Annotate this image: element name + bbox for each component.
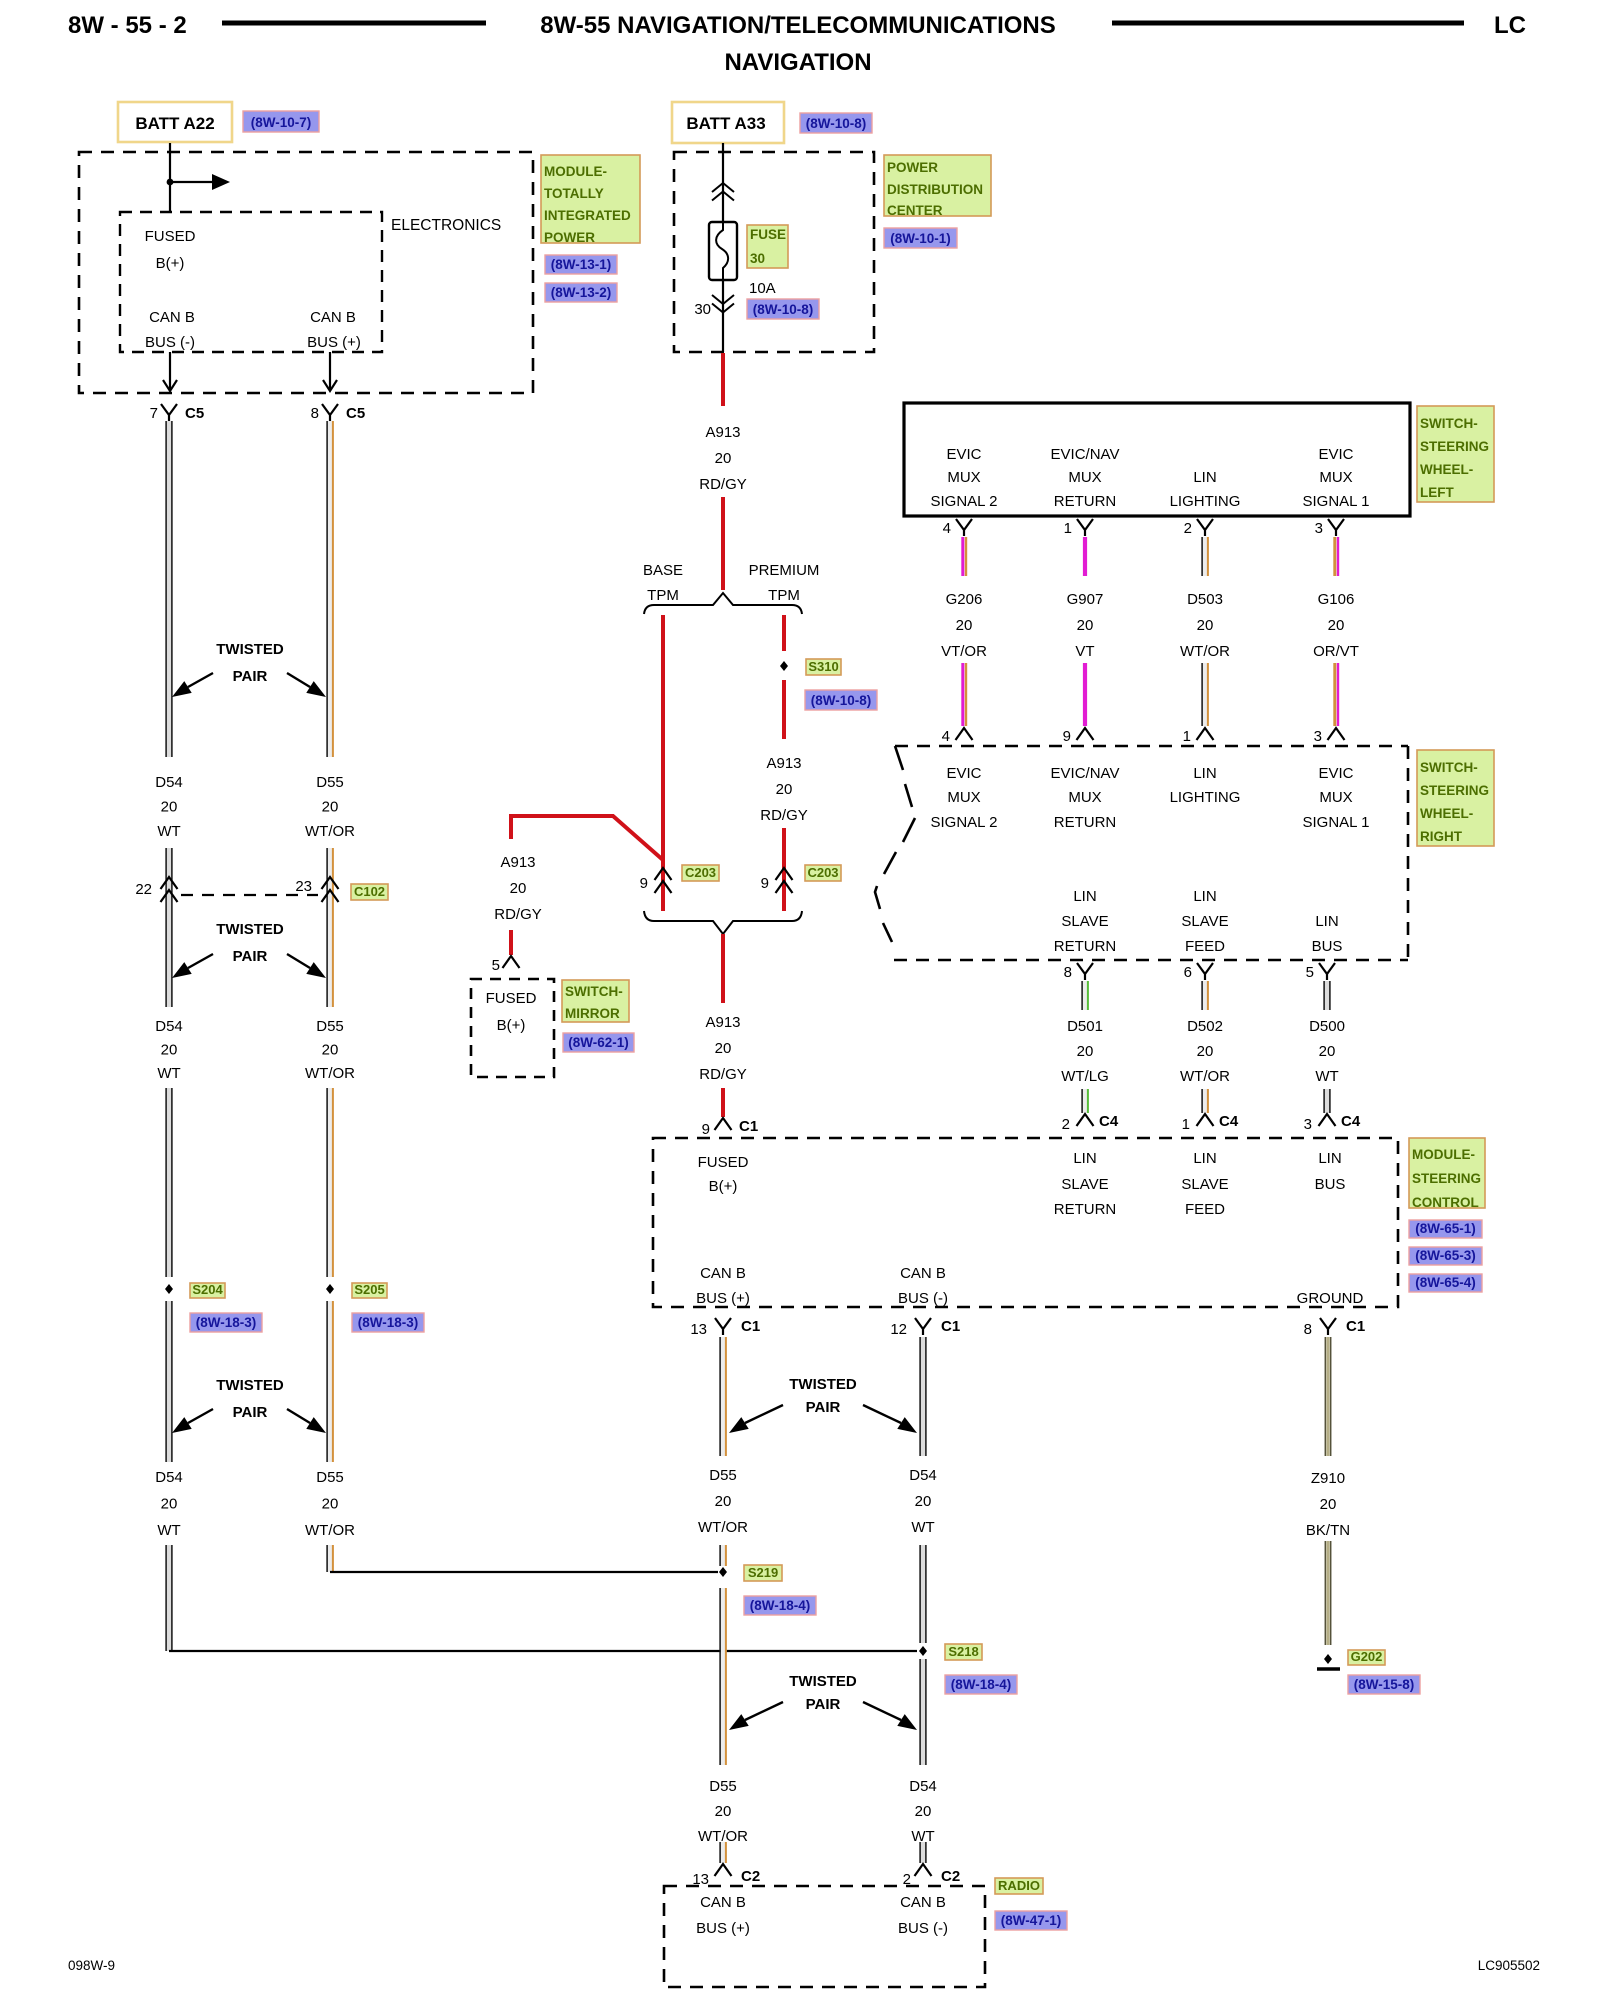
svg-text:3: 3 xyxy=(1314,728,1322,745)
svg-text:WT/OR: WT/OR xyxy=(698,1828,748,1845)
svg-text:C2: C2 xyxy=(741,1868,760,1885)
svg-text:FUSED: FUSED xyxy=(486,990,537,1007)
svg-text:20: 20 xyxy=(956,617,973,634)
connector C203 pin 9 base xyxy=(640,868,672,893)
splice S204 xyxy=(165,1282,225,1298)
reference (8W-10-1) xyxy=(884,228,957,248)
svg-text:FEED: FEED xyxy=(1185,1201,1225,1218)
svg-text:(8W-65-1): (8W-65-1) xyxy=(1415,1221,1476,1236)
svg-text:6: 6 xyxy=(1184,964,1192,981)
wire D55 20 WT/OR (centre) xyxy=(698,1337,748,1863)
svg-text:Z910: Z910 xyxy=(1311,1470,1345,1487)
svg-text:20: 20 xyxy=(322,1042,339,1059)
svg-text:RD/GY: RD/GY xyxy=(699,1066,747,1083)
wire D503 20 WT/OR xyxy=(1180,537,1230,726)
svg-text:8W-55 NAVIGATION/TELECOMMUNICA: 8W-55 NAVIGATION/TELECOMMUNICATIONS xyxy=(540,12,1056,39)
svg-text:D500: D500 xyxy=(1309,1018,1345,1035)
wire A913 BASE TPM branch xyxy=(661,615,665,911)
splice S310 xyxy=(780,659,841,675)
module SWITCH-MIRROR dashed box xyxy=(471,979,554,1077)
svg-text:098W-9: 098W-9 xyxy=(68,1958,115,1973)
twisted pair callout centre 1 xyxy=(729,1376,917,1433)
svg-text:B(+): B(+) xyxy=(709,1178,738,1195)
svg-text:MUX: MUX xyxy=(1068,469,1101,486)
reference (8W-18-4) xyxy=(744,1596,816,1615)
fuse label FUSE 30 xyxy=(747,225,788,268)
svg-text:CAN B: CAN B xyxy=(700,1894,746,1911)
svg-text:MUX: MUX xyxy=(1068,789,1101,806)
svg-text:20: 20 xyxy=(1328,617,1345,634)
branch wire to mirror switch xyxy=(494,816,663,955)
svg-text:PREMIUM: PREMIUM xyxy=(749,562,820,579)
reference (8W-18-3) xyxy=(352,1313,424,1332)
svg-text:C4: C4 xyxy=(1099,1113,1119,1130)
svg-text:4: 4 xyxy=(942,728,950,745)
svg-text:LIN: LIN xyxy=(1073,888,1096,905)
reference (8W-18-3) xyxy=(190,1313,262,1332)
svg-text:SWITCH-: SWITCH- xyxy=(1420,760,1478,775)
inner electronics dashed box xyxy=(120,212,382,352)
splice label S218 xyxy=(945,1644,982,1660)
connector C4 pin 2 xyxy=(1062,1113,1119,1133)
wire D500 20 WT xyxy=(1309,981,1345,1113)
reference (8W-65-4) xyxy=(1409,1274,1482,1292)
wire D55 20 WT/OR (left) xyxy=(305,421,355,1572)
svg-text:EVIC: EVIC xyxy=(946,446,981,463)
svg-text:G907: G907 xyxy=(1067,591,1104,608)
svg-text:D54: D54 xyxy=(155,1018,183,1035)
svg-text:S205: S205 xyxy=(354,1282,384,1297)
svg-text:BUS (+): BUS (+) xyxy=(696,1290,750,1307)
svg-text:22: 22 xyxy=(135,881,152,898)
svg-text:TWISTED: TWISTED xyxy=(216,921,284,938)
svg-text:1: 1 xyxy=(1182,1116,1190,1133)
svg-text:D503: D503 xyxy=(1187,591,1223,608)
wire G907 20 VT xyxy=(1067,537,1104,726)
svg-text:FUSED: FUSED xyxy=(145,228,196,245)
connector pin 2 steering wheel left xyxy=(1184,519,1213,537)
twisted pair callout left 1 xyxy=(172,641,326,697)
svg-text:BUS (-): BUS (-) xyxy=(898,1920,948,1937)
reference (8W-18-4) xyxy=(945,1675,1017,1694)
svg-text:20: 20 xyxy=(161,799,178,816)
svg-text:30: 30 xyxy=(694,301,711,318)
svg-text:B(+): B(+) xyxy=(156,255,185,272)
svg-text:3: 3 xyxy=(1315,520,1323,537)
reference (8W-13-2) xyxy=(545,283,617,302)
svg-text:RETURN: RETURN xyxy=(1054,938,1117,955)
svg-text:(8W-10-8): (8W-10-8) xyxy=(753,302,814,317)
label ELECTRONICS xyxy=(391,217,501,234)
svg-text:TWISTED: TWISTED xyxy=(216,641,284,658)
connector pin 3 steering wheel left xyxy=(1315,519,1344,537)
svg-text:BUS: BUS xyxy=(1312,938,1343,955)
wire CAN B BUS (+) exit arrow xyxy=(323,352,337,391)
svg-text:D54: D54 xyxy=(909,1778,937,1795)
svg-text:G202: G202 xyxy=(1351,1649,1383,1664)
wire fuse output xyxy=(722,280,724,352)
svg-text:C5: C5 xyxy=(185,405,204,422)
wire D501 20 WT/LG xyxy=(1061,981,1109,1113)
module PDC dashed box xyxy=(674,152,874,352)
svg-text:S204: S204 xyxy=(192,1282,223,1297)
svg-text:PAIR: PAIR xyxy=(806,1399,841,1416)
connector pin 9 steering wheel right xyxy=(1063,728,1094,745)
svg-text:ELECTRONICS: ELECTRONICS xyxy=(391,217,501,234)
connector C1 pin 12 xyxy=(890,1318,960,1338)
wire G106 20 OR/VT xyxy=(1313,537,1359,726)
module label RADIO xyxy=(995,1878,1043,1894)
svg-text:PAIR: PAIR xyxy=(233,668,268,685)
svg-text:RD/GY: RD/GY xyxy=(760,807,808,824)
svg-text:20: 20 xyxy=(322,1496,339,1513)
svg-text:20: 20 xyxy=(1077,1043,1094,1060)
connector C1 pin 8 xyxy=(1304,1318,1366,1338)
svg-text:(8W-18-3): (8W-18-3) xyxy=(358,1315,419,1330)
svg-text:D54: D54 xyxy=(155,1469,183,1486)
svg-text:MODULE-: MODULE- xyxy=(1412,1147,1475,1162)
connector pin 4 steering wheel left xyxy=(943,519,972,537)
connector C4 pin 3 xyxy=(1304,1113,1361,1133)
connector C2 pin 2 xyxy=(903,1864,961,1888)
svg-text:RD/GY: RD/GY xyxy=(699,476,747,493)
svg-text:SIGNAL 2: SIGNAL 2 xyxy=(931,493,998,510)
reference (8W-10-8) xyxy=(747,299,819,319)
svg-text:C4: C4 xyxy=(1341,1113,1361,1130)
svg-text:D55: D55 xyxy=(709,1467,737,1484)
svg-text:20: 20 xyxy=(715,1493,732,1510)
svg-text:CAN B: CAN B xyxy=(149,309,195,326)
module SWITCH-STEERING WHEEL-RIGHT dashed box xyxy=(875,746,1408,960)
svg-text:RETURN: RETURN xyxy=(1054,493,1117,510)
svg-text:C5: C5 xyxy=(346,405,365,422)
fuse rating 10A xyxy=(749,280,776,297)
svg-text:RETURN: RETURN xyxy=(1054,1201,1117,1218)
svg-text:(8W-65-4): (8W-65-4) xyxy=(1415,1275,1476,1290)
svg-text:TPM: TPM xyxy=(768,587,800,604)
svg-text:TWISTED: TWISTED xyxy=(789,1376,857,1393)
svg-text:S219: S219 xyxy=(748,1565,778,1580)
connector label C102 xyxy=(351,884,388,900)
svg-text:LIN: LIN xyxy=(1318,1150,1341,1167)
svg-text:EVIC: EVIC xyxy=(1318,446,1353,463)
reference (8W-47-1) xyxy=(995,1911,1067,1930)
svg-text:B(+): B(+) xyxy=(497,1017,526,1034)
svg-text:20: 20 xyxy=(915,1803,932,1820)
svg-text:MODULE-: MODULE- xyxy=(544,164,607,179)
svg-text:20: 20 xyxy=(1077,617,1094,634)
svg-text:D54: D54 xyxy=(155,774,183,791)
splice S219 link wire xyxy=(330,1567,727,1577)
svg-text:C102: C102 xyxy=(354,884,385,899)
svg-text:A913: A913 xyxy=(705,1014,740,1031)
svg-text:LC: LC xyxy=(1494,12,1526,39)
connector pin 4 steering wheel right xyxy=(942,728,973,745)
svg-text:CAN B: CAN B xyxy=(900,1265,946,1282)
connector C203 pin 9 premium xyxy=(761,868,793,893)
svg-text:WT: WT xyxy=(911,1519,934,1536)
wire BATT A22 feed xyxy=(169,143,171,212)
connector pin 1 steering wheel left xyxy=(1064,519,1093,537)
connector pin 5 under steering wheel right xyxy=(1306,963,1335,981)
svg-text:STEERING: STEERING xyxy=(1420,439,1489,454)
svg-text:C1: C1 xyxy=(941,1318,960,1335)
svg-text:VT: VT xyxy=(1075,643,1094,660)
connector pin 1 steering wheel right xyxy=(1183,728,1214,745)
svg-text:(8W-13-1): (8W-13-1) xyxy=(551,257,612,272)
svg-text:LIN: LIN xyxy=(1193,888,1216,905)
svg-text:20: 20 xyxy=(915,1493,932,1510)
svg-text:5: 5 xyxy=(492,957,500,974)
svg-text:SIGNAL 1: SIGNAL 1 xyxy=(1303,493,1370,510)
svg-text:SLAVE: SLAVE xyxy=(1061,913,1108,930)
svg-text:WHEEL-: WHEEL- xyxy=(1420,806,1473,821)
svg-text:(8W-10-8): (8W-10-8) xyxy=(806,116,867,131)
svg-text:CAN B: CAN B xyxy=(900,1894,946,1911)
svg-text:SLAVE: SLAVE xyxy=(1181,1176,1228,1193)
module label SWITCH-MIRROR xyxy=(562,980,629,1022)
svg-text:C203: C203 xyxy=(807,865,838,880)
connector C102 pin 23 xyxy=(295,877,338,902)
svg-text:(8W-62-1): (8W-62-1) xyxy=(568,1035,629,1050)
svg-text:20: 20 xyxy=(161,1496,178,1513)
wire D502 20 WT/OR xyxy=(1180,981,1230,1113)
svg-text:7: 7 xyxy=(150,405,158,422)
svg-text:30: 30 xyxy=(750,251,765,266)
connector pin 3 steering wheel right xyxy=(1314,728,1345,745)
svg-text:1: 1 xyxy=(1064,520,1072,537)
svg-text:1: 1 xyxy=(1183,728,1191,745)
svg-text:MIRROR: MIRROR xyxy=(565,1006,620,1021)
svg-text:RADIO: RADIO xyxy=(998,1878,1040,1893)
connector C5 pin 8 xyxy=(311,404,366,422)
connector C102 pin 22 xyxy=(135,877,177,902)
svg-text:LIN: LIN xyxy=(1315,913,1338,930)
connector pin 8 under steering wheel right xyxy=(1064,963,1093,981)
reference (8W-13-1) xyxy=(545,255,617,274)
fuse F30 10A xyxy=(709,222,737,280)
svg-text:20: 20 xyxy=(1320,1496,1337,1513)
svg-text:CENTER: CENTER xyxy=(887,203,943,218)
svg-text:MUX: MUX xyxy=(947,469,980,486)
svg-text:LIN: LIN xyxy=(1073,1150,1096,1167)
svg-text:WT/OR: WT/OR xyxy=(698,1519,748,1536)
connector C102 dashed link xyxy=(181,894,318,896)
svg-text:EVIC/NAV: EVIC/NAV xyxy=(1051,446,1120,463)
module label SWITCH-STEERING WHEEL-RIGHT xyxy=(1417,750,1494,846)
svg-text:20: 20 xyxy=(776,781,793,798)
svg-text:MUX: MUX xyxy=(1319,469,1352,486)
wire BATT A33 feed xyxy=(722,143,724,222)
svg-text:PAIR: PAIR xyxy=(233,948,268,965)
svg-text:S218: S218 xyxy=(948,1644,978,1659)
svg-text:4: 4 xyxy=(943,520,951,537)
connector pin 6 under steering wheel right xyxy=(1184,963,1213,981)
svg-text:TWISTED: TWISTED xyxy=(789,1673,857,1690)
svg-text:SLAVE: SLAVE xyxy=(1061,1176,1108,1193)
svg-text:LC905502: LC905502 xyxy=(1478,1958,1540,1973)
connector pin 5 switch-mirror xyxy=(492,956,520,974)
connector C5 pin 7 xyxy=(150,404,205,422)
svg-text:EVIC: EVIC xyxy=(1318,765,1353,782)
reference (8W-10-8) xyxy=(805,690,877,710)
svg-text:WT: WT xyxy=(157,1522,180,1539)
svg-text:(8W-18-4): (8W-18-4) xyxy=(750,1598,811,1613)
svg-text:TPM: TPM xyxy=(647,587,679,604)
svg-text:POWER: POWER xyxy=(544,230,595,245)
svg-text:LEFT: LEFT xyxy=(1420,485,1454,500)
svg-text:BASE: BASE xyxy=(643,562,683,579)
reference (8W-10-8) xyxy=(800,113,872,133)
twisted pair callout centre 2 xyxy=(729,1673,917,1730)
node BATT A22 xyxy=(118,102,232,142)
svg-text:D501: D501 xyxy=(1067,1018,1103,1035)
svg-text:PAIR: PAIR xyxy=(233,1404,268,1421)
svg-text:EVIC/NAV: EVIC/NAV xyxy=(1051,765,1120,782)
svg-text:3: 3 xyxy=(1304,1116,1312,1133)
svg-text:20: 20 xyxy=(1319,1043,1336,1060)
svg-text:SWITCH-: SWITCH- xyxy=(1420,416,1478,431)
svg-text:20: 20 xyxy=(715,1803,732,1820)
fuse output connector pin 30 xyxy=(694,295,734,318)
svg-text:RETURN: RETURN xyxy=(1054,814,1117,831)
svg-text:GROUND: GROUND xyxy=(1297,1290,1364,1307)
svg-text:S310: S310 xyxy=(808,659,838,674)
svg-text:9: 9 xyxy=(640,875,648,892)
svg-text:LIN: LIN xyxy=(1193,765,1216,782)
svg-text:BATT A22: BATT A22 xyxy=(135,114,214,133)
reference (8W-65-3) xyxy=(1409,1247,1482,1265)
connector label C203 xyxy=(682,865,719,881)
reference (8W-65-1) xyxy=(1409,1220,1482,1238)
svg-text:WT/OR: WT/OR xyxy=(305,1065,355,1082)
svg-text:20: 20 xyxy=(715,1040,732,1057)
svg-text:SIGNAL 1: SIGNAL 1 xyxy=(1303,814,1370,831)
svg-text:(8W-47-1): (8W-47-1) xyxy=(1001,1913,1062,1928)
svg-text:BUS (+): BUS (+) xyxy=(696,1920,750,1937)
svg-text:8: 8 xyxy=(1304,1321,1312,1338)
twisted pair callout left 3 xyxy=(172,1377,326,1433)
svg-text:(8W-10-1): (8W-10-1) xyxy=(890,231,951,246)
wire Z910 20 BK/TN xyxy=(1306,1337,1350,1645)
reference (8W-10-7) xyxy=(243,111,319,132)
wire D54 20 WT (centre) xyxy=(909,1337,937,1863)
svg-text:C2: C2 xyxy=(941,1868,960,1885)
splice S205 xyxy=(326,1282,387,1298)
svg-text:A913: A913 xyxy=(705,424,740,441)
svg-text:(8W-18-4): (8W-18-4) xyxy=(951,1677,1012,1692)
svg-text:STEERING: STEERING xyxy=(1420,783,1489,798)
twisted pair callout left 2 xyxy=(172,921,326,978)
svg-text:LIN: LIN xyxy=(1193,1150,1216,1167)
svg-text:10A: 10A xyxy=(749,280,776,297)
svg-text:FUSED: FUSED xyxy=(698,1154,749,1171)
TIPM pin labels xyxy=(145,228,361,351)
module TIPM dashed box xyxy=(79,152,533,393)
svg-text:9: 9 xyxy=(1063,728,1071,745)
page header xyxy=(68,12,1526,76)
fuse holder input connector xyxy=(712,183,734,201)
svg-text:2: 2 xyxy=(1062,1116,1070,1133)
svg-text:SLAVE: SLAVE xyxy=(1181,913,1228,930)
svg-text:D55: D55 xyxy=(316,1018,344,1035)
wire A913 20 RD/GY premium run xyxy=(760,680,808,911)
svg-text:8W - 55 - 2: 8W - 55 - 2 xyxy=(68,12,187,39)
module label MODULE-TOTALLY INTEGRATED POWER xyxy=(541,155,640,245)
module SWITCH-STEERING WHEEL-LEFT box xyxy=(904,403,1410,516)
svg-text:(8W-65-3): (8W-65-3) xyxy=(1415,1248,1476,1263)
svg-text:RIGHT: RIGHT xyxy=(1420,829,1463,844)
svg-text:D502: D502 xyxy=(1187,1018,1223,1035)
svg-text:WT/OR: WT/OR xyxy=(1180,643,1230,660)
wire A913 20 RD/GY to steering module xyxy=(699,934,747,1117)
svg-text:2: 2 xyxy=(1184,520,1192,537)
svg-text:8: 8 xyxy=(1064,964,1072,981)
svg-text:D54: D54 xyxy=(909,1467,937,1484)
brace split BASE/PREMIUM TPM xyxy=(643,562,819,614)
svg-text:13: 13 xyxy=(690,1321,707,1338)
svg-text:WT: WT xyxy=(157,1065,180,1082)
svg-text:BUS (-): BUS (-) xyxy=(898,1290,948,1307)
svg-text:C1: C1 xyxy=(1346,1318,1365,1335)
ground G202 xyxy=(1317,1654,1340,1669)
svg-text:BATT A33: BATT A33 xyxy=(686,114,765,133)
connector C4 pin 1 xyxy=(1182,1113,1239,1133)
svg-text:A913: A913 xyxy=(500,854,535,871)
svg-text:WT: WT xyxy=(1315,1068,1338,1085)
connector label C203 xyxy=(805,865,841,881)
svg-text:WT/OR: WT/OR xyxy=(305,823,355,840)
splice label S219 xyxy=(744,1565,782,1581)
svg-text:WT/OR: WT/OR xyxy=(1180,1068,1230,1085)
svg-text:23: 23 xyxy=(295,878,312,895)
svg-text:(8W-18-3): (8W-18-3) xyxy=(196,1315,257,1330)
svg-text:G106: G106 xyxy=(1318,591,1355,608)
svg-text:OR/VT: OR/VT xyxy=(1313,643,1359,660)
wire G206 20 VT/OR xyxy=(941,537,987,726)
svg-text:TWISTED: TWISTED xyxy=(216,1377,284,1394)
svg-text:PAIR: PAIR xyxy=(806,1696,841,1713)
svg-text:9: 9 xyxy=(702,1121,710,1138)
svg-text:(8W-10-8): (8W-10-8) xyxy=(811,693,872,708)
svg-text:20: 20 xyxy=(510,880,527,897)
svg-text:EVIC: EVIC xyxy=(946,765,981,782)
svg-text:WHEEL-: WHEEL- xyxy=(1420,462,1473,477)
svg-text:MUX: MUX xyxy=(1319,789,1352,806)
wire A913 20 RD/GY from PDC xyxy=(699,353,747,590)
svg-text:(8W-10-7): (8W-10-7) xyxy=(251,115,312,130)
svg-text:CONTROL: CONTROL xyxy=(1412,1195,1479,1210)
svg-text:MUX: MUX xyxy=(947,789,980,806)
ground label G202 xyxy=(1348,1649,1385,1665)
svg-text:(8W-13-2): (8W-13-2) xyxy=(551,285,612,300)
svg-text:STEERING: STEERING xyxy=(1412,1171,1481,1186)
svg-text:C4: C4 xyxy=(1219,1113,1239,1130)
svg-text:FUSE: FUSE xyxy=(750,227,786,242)
junction with branch arrow xyxy=(167,174,230,190)
svg-text:20: 20 xyxy=(1197,617,1214,634)
wire CAN B BUS (-) exit arrow xyxy=(163,352,177,391)
wire A913 PREMIUM TPM branch xyxy=(782,615,786,651)
svg-text:8: 8 xyxy=(311,405,319,422)
svg-text:TOTALLY: TOTALLY xyxy=(544,186,604,201)
module label POWER DISTRIBUTION CENTER xyxy=(884,155,991,218)
svg-text:LIGHTING: LIGHTING xyxy=(1170,493,1241,510)
svg-text:VT/OR: VT/OR xyxy=(941,643,987,660)
svg-text:20: 20 xyxy=(161,1042,178,1059)
reference (8W-15-8) xyxy=(1348,1675,1420,1694)
svg-text:C1: C1 xyxy=(739,1118,758,1135)
